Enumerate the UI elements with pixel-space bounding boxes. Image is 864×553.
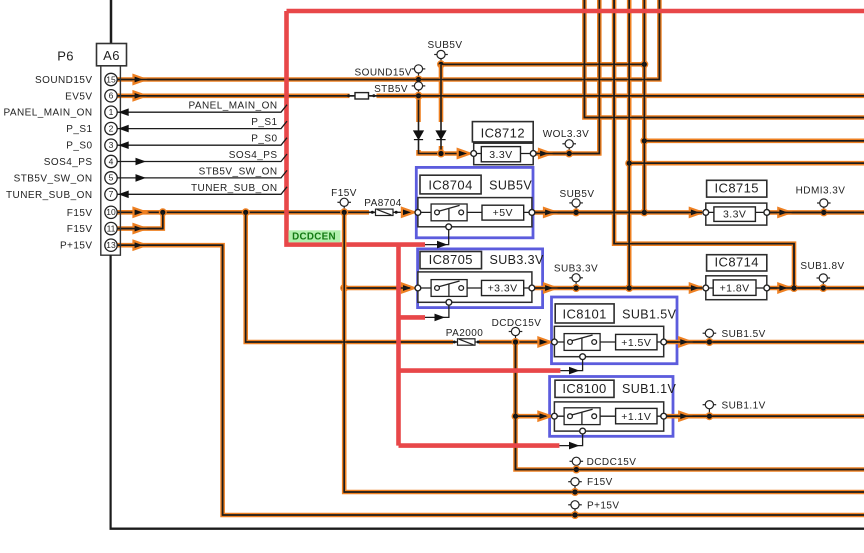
- wire P+15V from pin13 to bottom right edge: [117, 245, 864, 515]
- wire riser SUB1.8V to IC8714 output junction: [614, 0, 794, 288]
- output pin IC8100: [661, 413, 667, 419]
- power flag F15V top: [337, 198, 351, 212]
- svg-text:IC8714: IC8714: [715, 255, 759, 270]
- arrow into IC8101: [538, 338, 551, 347]
- switch inside IC8705: [431, 280, 467, 297]
- output pin IC8715: [764, 210, 770, 216]
- arrow out of IC8100: [679, 412, 692, 421]
- wire SOUND15V from pin15 right then up riser at x=659: [117, 0, 659, 80]
- svg-text:STB5V_SW_ON: STB5V_SW_ON: [199, 166, 278, 177]
- svg-text:SUB1.5V: SUB1.5V: [722, 329, 766, 340]
- arrow into IC8100: [538, 412, 551, 421]
- wire SUB5V top branch: [441, 62, 644, 67]
- junction STB5V at diode branch: [415, 92, 423, 100]
- arrow into IC8714: [690, 284, 703, 293]
- wire DCDC15V branch into IC8100: [516, 414, 547, 419]
- wire diode outputs OR-junction to IC8712 input: [419, 140, 467, 154]
- arrow into pin (P_S0): [118, 141, 129, 149]
- wire riser SUB3.3V: [627, 0, 632, 288]
- svg-text:IC8100: IC8100: [562, 381, 606, 396]
- wire DCDCEN red net: [287, 11, 864, 446]
- svg-text:DCDCEN: DCDCEN: [292, 232, 336, 243]
- power flag SUB1.8V: [817, 274, 831, 288]
- wire F15V branch into IC8705 input: [344, 286, 410, 291]
- wire signal SOS4_PS: [117, 154, 287, 162]
- wire F15V riser down to bottom right edge: [344, 212, 864, 492]
- wire signal STB5V_SW_ON: [117, 170, 287, 178]
- switching regulator U-IC8101 blue outline: [552, 297, 678, 364]
- svg-text:P_S0: P_S0: [251, 134, 277, 145]
- svg-text:+1.1V: +1.1V: [621, 411, 651, 423]
- svg-text:SOS4_PS: SOS4_PS: [44, 157, 93, 168]
- label box IC8704: [420, 175, 481, 194]
- arrow enable IC8101: [569, 367, 580, 375]
- connector pin 1 (PANEL_MAIN_ON): [105, 106, 117, 118]
- enable pin IC8705: [446, 299, 452, 305]
- output pin IC8714: [764, 285, 770, 291]
- label DCDCEN highlighted: [289, 230, 341, 242]
- input pin IC8705: [415, 285, 421, 291]
- wire enable into IC8101: [560, 360, 582, 371]
- connector pin 11 (F15V): [105, 222, 117, 234]
- svg-text:SOUND15V: SOUND15V: [35, 75, 93, 86]
- label box IC8715: [707, 180, 767, 197]
- svg-text:SUB3.3V: SUB3.3V: [554, 264, 598, 275]
- power flag SUB1.1V: [703, 401, 717, 417]
- switch inside IC8100: [564, 408, 600, 425]
- wire EV5V/STB5V from pin6 to right edge: [117, 94, 864, 99]
- output box 3.3V of IC8715: [714, 207, 756, 222]
- junction SUB3.3V riser bottom: [625, 284, 633, 292]
- enable pin IC8704: [446, 224, 452, 230]
- arrow into IC8704: [402, 208, 415, 217]
- wire signal PANEL_MAIN_ON: [117, 105, 287, 113]
- label box IC8705: [420, 252, 482, 269]
- arrow out of IC8704: [544, 208, 557, 217]
- svg-text:DCDC15V: DCDC15V: [587, 457, 637, 468]
- wire signal TUNER_SUB_ON: [117, 187, 287, 195]
- block border bottom: [110, 528, 864, 530]
- svg-text:IC8704: IC8704: [428, 177, 472, 192]
- wire F15V from pin11 joining pin10: [117, 212, 163, 228]
- svg-text:10: 10: [106, 207, 116, 217]
- svg-text:P_S1: P_S1: [251, 117, 277, 128]
- internal wires IC8100: [554, 415, 663, 417]
- svg-text:SUB1.1V: SUB1.1V: [622, 382, 676, 396]
- svg-text:SUB5V: SUB5V: [427, 40, 462, 51]
- arrow out of IC8705: [544, 284, 557, 293]
- arrow out (STB5V_SW_ON): [136, 174, 147, 182]
- wire signal P_S1: [117, 121, 287, 129]
- input pin IC8100: [552, 413, 558, 419]
- power flag P+15V bottom: [568, 501, 582, 515]
- wire signal P_S0: [117, 138, 287, 146]
- svg-text:STB5V: STB5V: [374, 84, 408, 95]
- power flag DCDC15V top: [509, 327, 523, 342]
- svg-text:IC8101: IC8101: [562, 307, 606, 322]
- arrow into pin (P_S1): [118, 125, 129, 133]
- svg-text:+1.8V: +1.8V: [720, 282, 750, 294]
- internal wires IC8705: [418, 287, 532, 289]
- svg-text:+3.3V: +3.3V: [488, 283, 518, 295]
- switch inside IC8704: [431, 204, 467, 221]
- arrow out of pin 11: [134, 224, 147, 233]
- svg-text:4: 4: [109, 156, 114, 166]
- connector pin 3 (P_S0): [105, 139, 117, 151]
- svg-text:3.3V: 3.3V: [489, 149, 512, 161]
- svg-text:WOL3.3V: WOL3.3V: [543, 129, 590, 140]
- internal wires IC8714: [706, 287, 767, 289]
- label box IC8712: [472, 122, 533, 142]
- power flag F15V bottom: [568, 478, 582, 492]
- junction SUB5V flag stem: [437, 60, 445, 68]
- connector pin 13 (P+15V): [105, 239, 117, 251]
- arrow out of pin 10: [134, 208, 147, 217]
- arrow out of IC8712: [539, 149, 552, 158]
- diode D2 (SUB5V): [436, 131, 445, 140]
- junction diode cathodes: [437, 150, 445, 158]
- wire SUB1.8V from IC8714 to right edge: [767, 286, 864, 291]
- arrow into IC8705: [402, 284, 415, 293]
- svg-text:F15V: F15V: [331, 188, 357, 199]
- power flag STB5V on net: [412, 82, 426, 96]
- svg-text:3: 3: [109, 140, 114, 150]
- wire DCDC15V down to bottom right edge: [516, 342, 864, 470]
- arrow out of pin 15: [134, 75, 147, 84]
- enable pin IC8100: [580, 428, 586, 434]
- connector pin 4 (SOS4_PS): [105, 155, 117, 167]
- junction SUB5V top: [640, 60, 648, 68]
- arrow out of pin 6: [134, 91, 147, 100]
- svg-text:EV5V: EV5V: [65, 91, 92, 102]
- wire F15V branch down to PA2000 feed: [246, 212, 453, 342]
- wire F15V from pin10 to PA8704: [117, 210, 376, 215]
- connector pin 15 (SOUND15V): [105, 73, 117, 85]
- wire SUB5V branch to right edge: [644, 139, 864, 144]
- diode D1 (STB5V): [414, 131, 423, 140]
- arrow enable IC8100: [569, 442, 580, 450]
- svg-text:15: 15: [106, 74, 116, 84]
- internal wires IC8715: [706, 211, 767, 213]
- svg-text:11: 11: [107, 223, 116, 233]
- connector pin 7 (TUNER_SUB_ON): [105, 188, 117, 200]
- output box +3.3V of IC8705: [482, 280, 524, 295]
- switching regulator U-IC8705 blue outline: [418, 249, 543, 308]
- arrow into IC8712: [458, 149, 471, 158]
- input pin IC8714: [703, 285, 709, 291]
- output box +1.5V of IC8101: [616, 334, 657, 349]
- wire STB5V down to diode D1: [416, 96, 421, 131]
- label box IC8100: [555, 380, 614, 397]
- svg-text:PANEL_MAIN_ON: PANEL_MAIN_ON: [188, 101, 277, 112]
- regulator IC8712 body box: [474, 143, 534, 165]
- connector body column: [101, 66, 121, 255]
- power flag DCDC15V bottom: [570, 457, 584, 469]
- wire riser SUB5V: [642, 0, 647, 212]
- svg-text:2: 2: [109, 123, 114, 133]
- power flag SUB5V top: [434, 50, 448, 64]
- arrow out of IC8715: [778, 208, 791, 217]
- svg-text:SUB5V: SUB5V: [559, 189, 594, 200]
- enable pin IC8101: [580, 354, 586, 360]
- wire enable into IC8705: [425, 305, 449, 317]
- label box IC8101: [555, 304, 614, 323]
- wire PA8704 to IC8704 input: [393, 211, 414, 213]
- IC8100 regulator body box: [554, 402, 663, 431]
- wire SUB1.1V from IC8100 to right edge: [664, 414, 864, 419]
- svg-text:1: 1: [109, 107, 114, 117]
- wire riser-1 to right edge at y=117: [584, 0, 864, 118]
- svg-text:F15V: F15V: [67, 208, 93, 219]
- svg-text:IC8705: IC8705: [429, 252, 473, 267]
- svg-text:IC8712: IC8712: [481, 125, 525, 140]
- junction pin11 branch: [159, 208, 167, 216]
- svg-text:SUB3.3V: SUB3.3V: [490, 253, 544, 267]
- wire HDMI3.3V from IC8715 to right edge: [767, 210, 864, 215]
- IC8705 regulator body box: [418, 272, 532, 302]
- output pin IC8705: [529, 285, 535, 291]
- svg-text:13: 13: [106, 240, 116, 250]
- wire SUB1.5V from IC8101 to right edge: [664, 340, 864, 345]
- svg-text:SUB1.1V: SUB1.1V: [722, 401, 766, 412]
- arrow out (SOS4_PS): [136, 158, 147, 166]
- output box +5V of IC8704: [482, 205, 524, 220]
- internal wires IC8704: [418, 211, 532, 213]
- wire F15V riser redrawn over red: [342, 230, 347, 300]
- svg-text:3.3V: 3.3V: [723, 208, 746, 220]
- svg-text:P_S1: P_S1: [66, 124, 92, 135]
- svg-text:F15V: F15V: [67, 224, 93, 235]
- svg-text:F15V: F15V: [587, 477, 613, 488]
- input pin IC8704: [415, 210, 421, 216]
- switching regulator U-IC8100 blue outline: [550, 377, 673, 437]
- IC8704 regulator body box: [418, 198, 532, 227]
- svg-text:SUB1.8V: SUB1.8V: [800, 261, 844, 272]
- arrow enable IC8705: [435, 314, 446, 322]
- svg-text:A6: A6: [103, 48, 120, 63]
- fuse PA8704: [371, 209, 398, 215]
- junction F15V branch at x=245: [242, 208, 250, 216]
- svg-text:IC8715: IC8715: [715, 181, 759, 196]
- svg-text:7: 7: [109, 189, 114, 199]
- connector P6/A6 top stub: [110, 0, 113, 44]
- switch inside IC8101: [564, 334, 600, 351]
- arrow into IC8715: [690, 208, 703, 217]
- connector pin 10 (F15V): [105, 206, 117, 218]
- junction SUB1.8V riser: [790, 284, 798, 292]
- power flag SUB1.5V: [703, 329, 717, 342]
- svg-text:SUB1.5V: SUB1.5V: [622, 308, 676, 322]
- connector bottom stub / block border vertical: [109, 255, 111, 529]
- power flag HDMI3.3V: [817, 199, 831, 213]
- output pin IC8712: [530, 151, 536, 157]
- arrow into pin (TUNER_SUB_ON): [118, 191, 129, 199]
- svg-text:+5V: +5V: [493, 207, 513, 219]
- input pin IC8715: [703, 210, 709, 216]
- arrow out of pin 13: [134, 241, 147, 250]
- svg-text:SUB5V: SUB5V: [489, 178, 532, 192]
- wire enable into IC8100: [559, 434, 582, 446]
- svg-text:P+15V: P+15V: [587, 500, 620, 511]
- output pin IC8101: [661, 339, 667, 345]
- input pin IC8101: [552, 339, 558, 345]
- wire PA2000 to DCDC15V junction: [475, 341, 550, 343]
- svg-text:PANEL_MAIN_ON: PANEL_MAIN_ON: [3, 108, 92, 119]
- svg-text:TUNER_SUB_ON: TUNER_SUB_ON: [6, 190, 93, 201]
- regulator IC8715 body box: [706, 203, 767, 225]
- junction DCDC15V to IC8100: [512, 412, 520, 420]
- svg-text:DCDC15V: DCDC15V: [492, 318, 542, 329]
- wire SUB5V from IC8704 to IC8715: [532, 210, 702, 215]
- arrow out of IC8714: [778, 284, 791, 293]
- connector pin 2 (P_S1): [105, 122, 117, 134]
- junction SUB5V riser bottom: [640, 208, 648, 216]
- svg-text:5: 5: [109, 173, 114, 183]
- wire SUB3.3V branch to right edge: [629, 161, 864, 166]
- fuse PA2000: [453, 339, 480, 345]
- svg-text:PA2000: PA2000: [446, 328, 484, 339]
- svg-text:P_S0: P_S0: [66, 141, 92, 152]
- IC8101 regulator body box: [554, 326, 663, 356]
- svg-text:6: 6: [109, 91, 114, 101]
- svg-text:+1.5V: +1.5V: [621, 337, 651, 349]
- svg-text:HDMI3.3V: HDMI3.3V: [796, 186, 846, 197]
- wire WOL3.3V output riser: [533, 0, 599, 154]
- output pin IC8704: [529, 210, 535, 216]
- junction SUB5V branch: [640, 137, 648, 145]
- arrow enable IC8704: [437, 241, 448, 249]
- resistor on EV5V line: [347, 93, 375, 99]
- svg-text:P6: P6: [57, 49, 74, 64]
- svg-text:TUNER_SUB_ON: TUNER_SUB_ON: [191, 183, 278, 194]
- label box IC8714: [707, 255, 767, 271]
- power flag WOL3.3V: [562, 140, 576, 154]
- wire SUB3.3V from IC8705 to IC8714: [532, 286, 702, 291]
- switching regulator U-IC8704 blue outline: [416, 167, 533, 237]
- arrow into pin (PANEL_MAIN_ON): [118, 108, 129, 116]
- power flag SUB5V mid: [569, 199, 583, 213]
- power flag SOUND15V on net: [412, 65, 426, 80]
- wire enable into IC8704: [425, 230, 449, 245]
- power flag SUB3.3V: [569, 274, 583, 288]
- connector block name box A6: [97, 44, 127, 66]
- internal wires IC8101: [554, 341, 663, 343]
- wire SUB5V down to diode D2: [439, 64, 444, 131]
- connector pin 6 (EV5V): [105, 90, 117, 102]
- svg-text:STB5V_SW_ON: STB5V_SW_ON: [14, 173, 93, 184]
- svg-text:SOS4_PS: SOS4_PS: [229, 150, 278, 161]
- internal wires IC8712: [474, 153, 534, 155]
- output box +1.1V of IC8100: [616, 408, 657, 423]
- svg-text:PA8704: PA8704: [364, 198, 402, 209]
- input pin IC8712: [471, 151, 477, 157]
- junction SUB3.3V branch: [625, 159, 633, 167]
- output box +1.8V of IC8714: [713, 280, 756, 296]
- regulator IC8714 body box: [706, 276, 767, 300]
- svg-text:P+15V: P+15V: [60, 241, 93, 252]
- arrow out of IC8101: [679, 338, 692, 347]
- connector pin 5 (STB5V_SW_ON): [105, 172, 117, 184]
- svg-text:SOUND15V: SOUND15V: [354, 68, 412, 79]
- junction F15V to IC8705: [340, 284, 348, 292]
- output box 3.3V of IC8712: [481, 147, 520, 162]
